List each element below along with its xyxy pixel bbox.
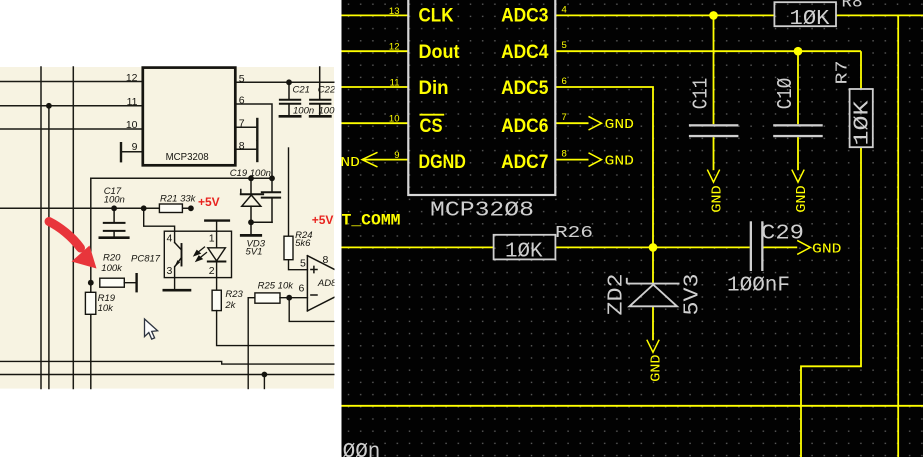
- LED light arrows: [194, 247, 206, 261]
- svg-text:C11: C11: [691, 78, 714, 110]
- IC U1 MCP3208 body: [408, 0, 555, 195]
- svg-text:CLK: CLK: [419, 6, 454, 27]
- svg-text:C22: C22: [318, 85, 336, 96]
- wire C10 branch: [797, 51, 799, 124]
- resistor R25: [248, 293, 334, 389]
- svg-text:C21: C21: [293, 85, 310, 96]
- svg-text:100: 100: [319, 106, 336, 117]
- svg-text:5: 5: [562, 40, 567, 51]
- wire C10 to GND: [797, 137, 799, 170]
- +5V rail bar above PC817: [205, 221, 229, 232]
- svg-text:8: 8: [323, 254, 329, 266]
- svg-text:5k6: 5k6: [295, 238, 311, 249]
- zener diode ZD2 symbol: [627, 278, 680, 307]
- svg-text:GND: GND: [710, 185, 726, 213]
- svg-text:11: 11: [390, 78, 400, 89]
- resistor R7 body: [850, 89, 873, 147]
- svg-text:ADC5: ADC5: [501, 78, 549, 99]
- svg-text:10: 10: [126, 119, 138, 131]
- CS overline: [420, 114, 445, 116]
- junction dot pin4/C11: [709, 11, 718, 20]
- resistor R26 body: [494, 235, 556, 260]
- wire horizontal at y178: [91, 177, 272, 179]
- capacitor C10 plates: [773, 124, 823, 126]
- junction node wire-PC817: [141, 205, 147, 211]
- svg-text:12: 12: [126, 72, 138, 84]
- svg-text:ADC6: ADC6: [501, 116, 548, 137]
- wire pin4 row right of R8: [836, 14, 923, 16]
- power port GND arrow pin8: [589, 153, 602, 167]
- LED inside PC817: [208, 231, 226, 277]
- wire +5V row y208: [0, 207, 191, 209]
- wire R26 row left: [342, 246, 494, 248]
- capacitor C11 plates: [689, 124, 739, 126]
- svg-text:R7: R7: [834, 61, 853, 85]
- optocoupler PC817 box: [164, 231, 231, 277]
- svg-text:Din: Din: [419, 78, 449, 99]
- svg-text:ZD2: ZD2: [606, 274, 629, 316]
- wire C29 to GND port: [764, 246, 798, 248]
- power port GND arrow C29: [797, 240, 810, 254]
- wire horizontal bottom: [342, 405, 923, 407]
- wire pin10 row left: [0, 128, 143, 130]
- svg-text:13: 13: [389, 6, 400, 17]
- wire pin7 ADC6 stub: [555, 122, 588, 124]
- wire R24 to op-amp: [289, 260, 308, 270]
- svg-text:1ØK: 1ØK: [790, 8, 830, 31]
- wire pin13 CLK: [342, 14, 409, 16]
- svg-text:Dout: Dout: [419, 42, 461, 63]
- bus wire vertical B: [72, 67, 74, 389]
- svg-text:+5V: +5V: [198, 195, 220, 209]
- svg-text:C29: C29: [761, 223, 804, 246]
- power port GND arrow C10: [792, 170, 804, 183]
- resistor R20: [100, 274, 137, 291]
- svg-text:R26: R26: [555, 224, 593, 243]
- wire pin6 ADC5 row: [555, 87, 653, 247]
- wire R7 bottom long vertical with step: [801, 147, 861, 457]
- svg-text:7: 7: [562, 112, 567, 123]
- svg-text:AD8: AD8: [317, 278, 337, 289]
- wire pin8 ADC7 stub: [555, 159, 588, 161]
- pin9 terminator bar: [120, 143, 122, 161]
- svg-text:100k: 100k: [101, 263, 123, 274]
- svg-text:3: 3: [167, 265, 173, 277]
- svg-text:+5V: +5V: [312, 213, 334, 227]
- rail A left part: [0, 361, 334, 364]
- svg-text:ADC3: ADC3: [501, 6, 548, 27]
- svg-text:6: 6: [299, 283, 305, 295]
- junction node R21 right: [188, 205, 194, 211]
- resistor R21: [159, 204, 182, 213]
- svg-text:5V1: 5V1: [246, 247, 263, 258]
- svg-text:10k: 10k: [98, 303, 115, 314]
- junction node C21: [286, 79, 292, 85]
- junction node VD3 top: [248, 175, 254, 181]
- svg-text:2k: 2k: [224, 300, 236, 311]
- mouse cursor: [145, 319, 158, 339]
- svg-text:10: 10: [389, 114, 400, 125]
- svg-text:2: 2: [209, 265, 215, 277]
- rail B: [0, 374, 334, 376]
- junction dot R26/ZD2: [649, 243, 658, 252]
- svg-text:6: 6: [562, 76, 567, 87]
- svg-text:MCP3208: MCP3208: [166, 151, 209, 163]
- left scanned schematic background: [0, 67, 334, 389]
- wire R26 to C29: [555, 246, 749, 248]
- junction node R25 out: [286, 295, 292, 301]
- wire pin4 ADC3 row: [555, 14, 774, 16]
- svg-text:5: 5: [300, 257, 306, 269]
- svg-text:4: 4: [167, 233, 173, 245]
- wire ZD2 to GND: [652, 306, 654, 340]
- svg-text:1ØK: 1ØK: [505, 241, 543, 264]
- wire C11 branch: [713, 15, 715, 124]
- wire pin11 row left: [0, 105, 143, 107]
- svg-text:CS: CS: [420, 116, 443, 137]
- capacitor C22 (cut at edge): [310, 67, 330, 116]
- wire C11 to GND: [713, 137, 715, 170]
- power port GND arrow pin9: [362, 152, 378, 167]
- resistor R24: [284, 148, 293, 260]
- pin8 terminator bar: [256, 141, 258, 161]
- junction node bus dot: [46, 103, 52, 109]
- svg-text:C19 100n: C19 100n: [230, 168, 271, 179]
- op-amp AD8 triangle: [307, 256, 334, 311]
- svg-text:11: 11: [127, 96, 138, 108]
- svg-text:ADC7: ADC7: [501, 152, 548, 173]
- svg-text:100n: 100n: [293, 106, 314, 117]
- svg-text:5: 5: [239, 73, 245, 85]
- wire pin5 row right: [235, 81, 334, 83]
- svg-text:R21 33k: R21 33k: [160, 193, 197, 204]
- wire long vertical right: [897, 15, 899, 457]
- resistor R8 body: [774, 2, 836, 26]
- power port GND arrow pin7: [589, 116, 602, 130]
- junction node R20: [88, 280, 94, 286]
- svg-text:1ØK: 1ØK: [852, 100, 875, 145]
- capacitor C19: [251, 192, 280, 222]
- wire pin11 Din: [342, 86, 409, 88]
- svg-text:12: 12: [389, 42, 400, 53]
- wire pin12 row left: [0, 81, 143, 83]
- wire vertical D to R20: [90, 178, 92, 388]
- power port GND arrow C11: [707, 170, 719, 183]
- red annotation arrowhead: [72, 246, 97, 269]
- svg-text:5V3: 5V3: [682, 274, 705, 316]
- wire pin9 DGND: [362, 159, 408, 161]
- svg-text:MCP32Ø8: MCP32Ø8: [430, 200, 534, 223]
- junction dot pin5/C10: [794, 47, 803, 56]
- wire pin8 stub: [235, 148, 257, 150]
- svg-text:GND: GND: [605, 117, 635, 133]
- wire pin10 CS: [342, 122, 409, 124]
- svg-text:R8: R8: [842, 0, 863, 13]
- zener diode VD3: [241, 178, 263, 235]
- stub below rail B: [263, 375, 265, 389]
- ground under PC817 pin3: [164, 278, 190, 291]
- wire ZD2 top: [652, 247, 654, 283]
- power port GND arrow ZD2: [647, 340, 659, 353]
- resistor R19: [85, 292, 95, 314]
- op-amp plus input: [311, 266, 317, 295]
- junction node rail B: [262, 372, 268, 378]
- svg-text:R20: R20: [103, 253, 121, 264]
- svg-text:GND: GND: [649, 354, 665, 382]
- wire pin5 ADC4 row: [555, 50, 861, 52]
- svg-text:4: 4: [562, 4, 567, 15]
- svg-text:7: 7: [239, 118, 245, 130]
- bus wire vertical C: [48, 106, 50, 389]
- svg-text:9: 9: [394, 150, 399, 161]
- svg-text:6: 6: [239, 95, 245, 107]
- phototransistor inside PC817: [175, 231, 182, 277]
- svg-text:100n: 100n: [104, 195, 125, 206]
- svg-text:1ØØnF: 1ØØnF: [727, 275, 790, 298]
- wire pin7 stub: [235, 126, 257, 128]
- resistor R23: [212, 278, 334, 346]
- dark EDA panel background: [342, 0, 923, 457]
- junction node pin6/C19: [269, 175, 275, 181]
- bus wire vertical A: [40, 67, 42, 389]
- svg-text:GND: GND: [812, 242, 842, 258]
- svg-text:GND: GND: [605, 154, 635, 170]
- svg-text:8: 8: [562, 149, 567, 160]
- svg-text:C1Ø: C1Ø: [775, 78, 798, 110]
- svg-text:9: 9: [132, 141, 138, 153]
- wire from R21 node to PC817 pin4: [144, 208, 175, 231]
- wire pin9 stub: [121, 151, 143, 153]
- svg-text:ADC4: ADC4: [501, 42, 549, 63]
- wire pin6 row right: [235, 104, 272, 192]
- capacitor C21: [280, 82, 300, 116]
- emitter arrowhead (PC817): [174, 260, 180, 267]
- svg-text:8: 8: [239, 140, 245, 152]
- wire pin12 Dout: [342, 50, 409, 52]
- svg-text:GND: GND: [794, 185, 810, 213]
- junction node VD3 stem: [248, 219, 254, 225]
- junction node C17: [111, 205, 117, 211]
- svg-text:DGND: DGND: [419, 152, 466, 173]
- red annotation arrow: [49, 222, 81, 249]
- capacitor C17: [100, 208, 129, 237]
- svg-text:R23: R23: [225, 289, 243, 300]
- IC U-left MCP3208 body: [143, 68, 236, 166]
- pin7 terminator bar: [256, 119, 258, 140]
- svg-text:PC817: PC817: [131, 253, 161, 264]
- capacitor C29 plates: [750, 221, 752, 271]
- svg-text:1: 1: [209, 233, 215, 245]
- svg-text:R25 10k: R25 10k: [258, 280, 295, 291]
- svg-text:T_COMM: T_COMM: [342, 211, 401, 229]
- wire R7 top: [860, 51, 862, 89]
